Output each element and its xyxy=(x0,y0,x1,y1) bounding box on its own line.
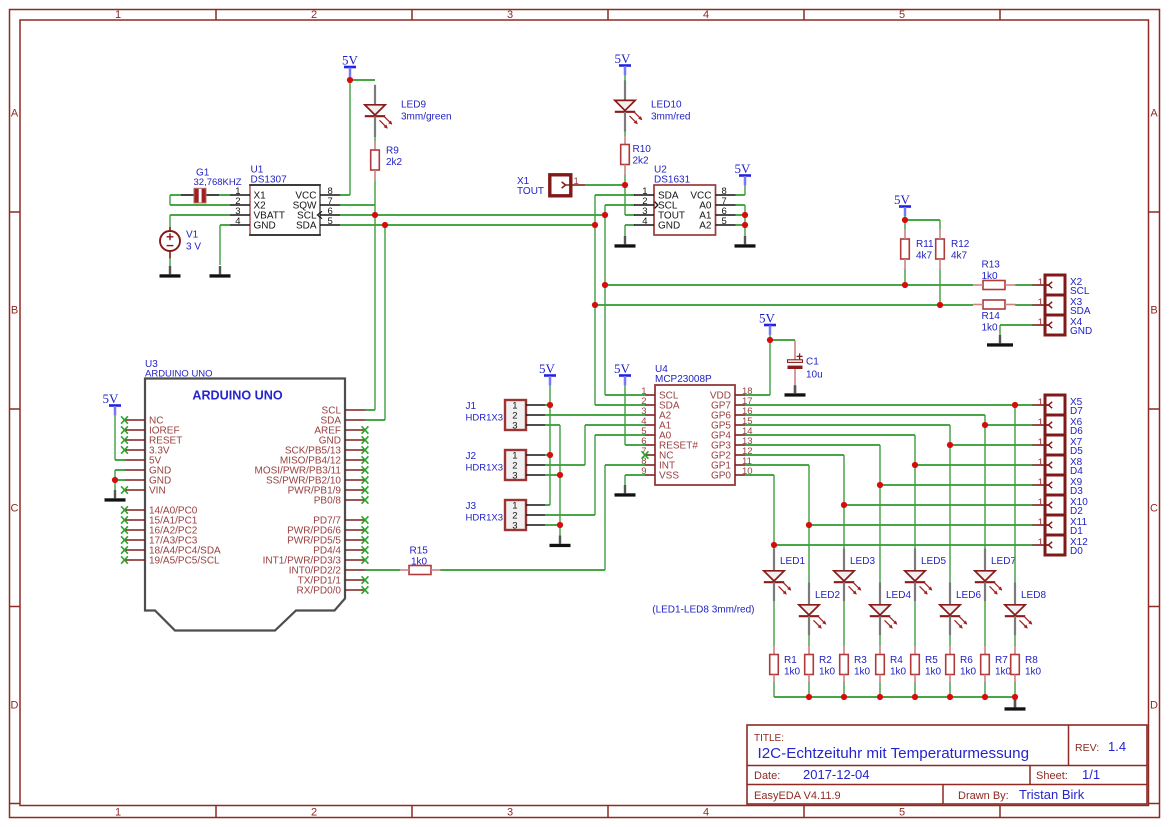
svg-text:4: 4 xyxy=(703,9,709,21)
svg-text:D: D xyxy=(11,700,19,712)
svg-text:Drawn By:: Drawn By: xyxy=(958,790,1009,802)
svg-text:4: 4 xyxy=(703,807,709,819)
svg-text:R15: R15 xyxy=(410,546,429,557)
svg-text:1: 1 xyxy=(1037,317,1043,329)
svg-text:3: 3 xyxy=(507,807,513,819)
svg-text:1/1: 1/1 xyxy=(1082,767,1100,782)
svg-text:SDA: SDA xyxy=(296,221,317,232)
svg-text:GP0: GP0 xyxy=(711,471,731,482)
svg-text:DS1631: DS1631 xyxy=(654,175,691,186)
svg-text:GND: GND xyxy=(658,221,680,232)
svg-text:3mm/red: 3mm/red xyxy=(651,112,690,123)
svg-text:1.4: 1.4 xyxy=(1108,739,1126,754)
svg-text:A2: A2 xyxy=(699,221,712,232)
svg-text:1k0: 1k0 xyxy=(982,271,999,282)
svg-text:1: 1 xyxy=(1037,437,1043,449)
svg-text:MCP23008P: MCP23008P xyxy=(655,374,712,385)
svg-text:5: 5 xyxy=(899,9,905,21)
svg-text:REV:: REV: xyxy=(1075,742,1099,754)
svg-text:R5: R5 xyxy=(925,655,938,666)
svg-text:1: 1 xyxy=(574,176,579,187)
svg-text:9: 9 xyxy=(641,466,646,477)
svg-text:HDR1X3: HDR1X3 xyxy=(466,462,504,473)
svg-text:2: 2 xyxy=(311,807,317,819)
svg-text:5V: 5V xyxy=(735,161,752,176)
svg-text:I2C-Echtzeituhr mit Temperatur: I2C-Echtzeituhr mit Temperaturmessung xyxy=(758,745,1030,762)
svg-text:R9: R9 xyxy=(386,146,399,157)
svg-text:5: 5 xyxy=(328,216,333,227)
svg-text:5V: 5V xyxy=(103,391,120,406)
svg-text:ARDUINO UNO: ARDUINO UNO xyxy=(145,369,213,380)
svg-text:LED1: LED1 xyxy=(780,556,805,567)
svg-text:D2: D2 xyxy=(1070,506,1083,517)
svg-text:3: 3 xyxy=(512,471,517,482)
svg-text:LED3: LED3 xyxy=(850,556,875,567)
svg-text:D7: D7 xyxy=(1070,406,1083,417)
svg-text:LED10: LED10 xyxy=(651,100,682,111)
svg-text:4: 4 xyxy=(235,216,240,227)
svg-text:3: 3 xyxy=(507,9,513,21)
svg-text:4k7: 4k7 xyxy=(951,251,968,262)
svg-text:4: 4 xyxy=(642,216,647,227)
svg-text:Tristan Birk: Tristan Birk xyxy=(1019,787,1085,802)
svg-text:J3: J3 xyxy=(466,501,477,512)
svg-text:C: C xyxy=(11,503,19,515)
svg-text:A: A xyxy=(11,108,19,120)
svg-text:1: 1 xyxy=(1037,497,1043,509)
svg-text:D0: D0 xyxy=(1070,546,1083,557)
svg-text:(LED1-LED8 3mm/red): (LED1-LED8 3mm/red) xyxy=(652,604,754,615)
svg-text:5V: 5V xyxy=(894,192,911,207)
svg-text:10u: 10u xyxy=(806,370,823,381)
svg-text:1k0: 1k0 xyxy=(960,667,977,678)
svg-text:1: 1 xyxy=(1037,297,1043,309)
svg-text:V1: V1 xyxy=(186,230,199,241)
svg-text:R11: R11 xyxy=(916,239,934,250)
svg-text:R14: R14 xyxy=(982,311,1001,322)
svg-text:5V: 5V xyxy=(342,53,359,68)
svg-text:RX/PD0/0: RX/PD0/0 xyxy=(297,586,342,597)
svg-text:R13: R13 xyxy=(982,260,1001,271)
svg-text:1k0: 1k0 xyxy=(411,557,428,568)
svg-text:32,768KHZ: 32,768KHZ xyxy=(194,177,242,188)
svg-text:EasyEDA V4.11.9: EasyEDA V4.11.9 xyxy=(754,790,841,802)
svg-text:DS1307: DS1307 xyxy=(251,175,288,186)
svg-text:2: 2 xyxy=(311,9,317,21)
svg-text:R8: R8 xyxy=(1025,655,1038,666)
svg-text:R4: R4 xyxy=(890,655,903,666)
svg-text:R7: R7 xyxy=(995,655,1008,666)
svg-text:D5: D5 xyxy=(1070,446,1083,457)
svg-text:LED4: LED4 xyxy=(886,590,911,601)
svg-text:TITLE:: TITLE: xyxy=(754,733,784,744)
svg-text:2k2: 2k2 xyxy=(633,156,650,167)
svg-text:D4: D4 xyxy=(1070,466,1083,477)
svg-text:1k0: 1k0 xyxy=(982,323,999,334)
svg-text:1: 1 xyxy=(115,807,121,819)
svg-text:R6: R6 xyxy=(960,655,973,666)
svg-text:HDR1X3: HDR1X3 xyxy=(466,412,504,423)
svg-text:3 V: 3 V xyxy=(186,242,201,253)
svg-text:LED5: LED5 xyxy=(921,556,946,567)
svg-text:1k0: 1k0 xyxy=(995,667,1012,678)
svg-text:R1: R1 xyxy=(784,655,797,666)
svg-text:1k0: 1k0 xyxy=(854,667,871,678)
svg-text:GND: GND xyxy=(254,221,276,232)
svg-text:2017-12-04: 2017-12-04 xyxy=(803,767,870,782)
svg-text:LED8: LED8 xyxy=(1021,590,1046,601)
svg-text:TOUT: TOUT xyxy=(517,186,544,197)
svg-text:1: 1 xyxy=(1037,417,1043,429)
svg-text:19/A5/PC5/SCL: 19/A5/PC5/SCL xyxy=(149,556,220,567)
svg-text:SCL: SCL xyxy=(1070,286,1090,297)
svg-text:Sheet:: Sheet: xyxy=(1036,770,1068,782)
svg-text:C1: C1 xyxy=(806,357,819,368)
svg-text:SDA: SDA xyxy=(1070,306,1091,317)
svg-text:LED6: LED6 xyxy=(956,590,981,601)
svg-text:3mm/green: 3mm/green xyxy=(401,112,452,123)
svg-text:5: 5 xyxy=(899,807,905,819)
svg-text:1k0: 1k0 xyxy=(1025,667,1042,678)
svg-text:Date:: Date: xyxy=(754,770,780,782)
svg-text:VSS: VSS xyxy=(659,471,679,482)
svg-text:10: 10 xyxy=(742,466,753,477)
svg-text:1: 1 xyxy=(1037,477,1043,489)
svg-text:1: 1 xyxy=(115,9,121,21)
svg-text:R2: R2 xyxy=(819,655,832,666)
svg-text:1: 1 xyxy=(1037,397,1043,409)
svg-text:1k0: 1k0 xyxy=(784,667,801,678)
svg-text:D1: D1 xyxy=(1070,526,1083,537)
svg-text:D: D xyxy=(1150,700,1158,712)
svg-text:ARDUINO UNO: ARDUINO UNO xyxy=(192,389,282,403)
svg-text:GND: GND xyxy=(1070,326,1092,337)
svg-text:2k2: 2k2 xyxy=(386,157,403,168)
svg-text:1: 1 xyxy=(1037,457,1043,469)
svg-text:3: 3 xyxy=(512,421,517,432)
svg-text:R3: R3 xyxy=(854,655,867,666)
svg-text:C: C xyxy=(1150,503,1158,515)
svg-text:1k0: 1k0 xyxy=(890,667,907,678)
svg-text:1: 1 xyxy=(1037,537,1043,549)
svg-text:5: 5 xyxy=(722,216,727,227)
svg-text:J2: J2 xyxy=(466,451,477,462)
svg-text:PB0/8: PB0/8 xyxy=(314,496,342,507)
svg-text:1: 1 xyxy=(1037,277,1043,289)
svg-text:B: B xyxy=(11,305,18,317)
svg-text:B: B xyxy=(1150,305,1157,317)
svg-text:1k0: 1k0 xyxy=(819,667,836,678)
svg-text:5V: 5V xyxy=(614,361,631,376)
svg-text:1k0: 1k0 xyxy=(925,667,942,678)
svg-text:HDR1X3: HDR1X3 xyxy=(466,512,504,523)
svg-text:5V: 5V xyxy=(759,311,776,326)
svg-text:A: A xyxy=(1150,108,1158,120)
svg-text:LED7: LED7 xyxy=(991,556,1016,567)
svg-text:5V: 5V xyxy=(539,361,556,376)
svg-text:5V: 5V xyxy=(615,51,632,66)
svg-text:R12: R12 xyxy=(951,239,970,250)
svg-text:LED2: LED2 xyxy=(815,590,840,601)
svg-text:LED9: LED9 xyxy=(401,100,426,111)
svg-text:4k7: 4k7 xyxy=(916,251,933,262)
svg-text:VIN: VIN xyxy=(149,486,166,497)
svg-text:R10: R10 xyxy=(633,144,652,155)
svg-text:D3: D3 xyxy=(1070,486,1083,497)
svg-text:3: 3 xyxy=(512,521,517,532)
svg-text:1: 1 xyxy=(1037,517,1043,529)
svg-text:D6: D6 xyxy=(1070,426,1083,437)
svg-text:J1: J1 xyxy=(466,401,477,412)
